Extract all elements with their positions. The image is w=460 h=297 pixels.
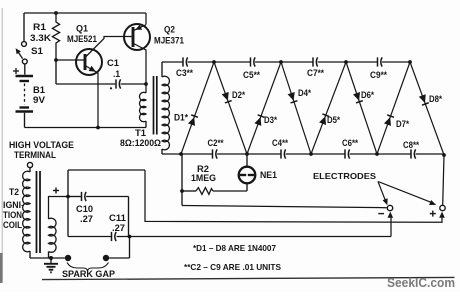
svg-text:C10: C10 — [76, 204, 93, 214]
svg-text:C2**: C2** — [208, 138, 224, 148]
svg-text:Q1: Q1 — [76, 24, 88, 34]
svg-text:.27: .27 — [112, 223, 125, 233]
svg-text:MJE521: MJE521 — [67, 34, 97, 44]
svg-text:C4**: C4** — [272, 138, 288, 148]
svg-text:.1: .1 — [113, 69, 120, 79]
svg-text:SPARK GAP: SPARK GAP — [62, 269, 115, 279]
svg-text:3.3K: 3.3K — [30, 33, 52, 43]
svg-text:NE1: NE1 — [260, 170, 277, 180]
svg-text:T1: T1 — [135, 128, 146, 138]
svg-text:HIGH VOLTAGE: HIGH VOLTAGE — [9, 140, 74, 150]
svg-text:S1: S1 — [31, 46, 43, 56]
svg-text:TERMINAL: TERMINAL — [14, 150, 56, 160]
svg-text:*D1 – D8 ARE 1N4007: *D1 – D8 ARE 1N4007 — [193, 243, 276, 253]
svg-text:B1: B1 — [33, 85, 45, 95]
svg-text:C1: C1 — [107, 58, 119, 68]
svg-text:R1: R1 — [33, 22, 46, 32]
svg-text:C6**: C6** — [342, 138, 358, 148]
svg-text:.27: .27 — [80, 214, 93, 224]
svg-text:D6*: D6* — [361, 90, 374, 100]
svg-text:D8*: D8* — [429, 94, 442, 104]
svg-text:C9**: C9** — [370, 70, 387, 80]
svg-text:SeekIC.com: SeekIC.com — [387, 275, 455, 290]
svg-text:D4*: D4* — [298, 88, 311, 98]
svg-text:C11: C11 — [109, 213, 126, 223]
svg-text:1MEG: 1MEG — [191, 173, 216, 183]
svg-text:IGNI-: IGNI- — [3, 200, 24, 210]
svg-text:C5**: C5** — [243, 70, 260, 80]
svg-text:D3*: D3* — [264, 115, 277, 125]
svg-text:T2: T2 — [9, 187, 19, 197]
svg-text:9V: 9V — [33, 95, 45, 105]
svg-text:TION: TION — [3, 210, 22, 220]
svg-text:C7**: C7** — [307, 68, 324, 78]
svg-text:D7*: D7* — [396, 119, 409, 129]
svg-text:MJE371: MJE371 — [154, 36, 184, 46]
svg-text:D1*: D1* — [174, 113, 188, 123]
svg-text:D2*: D2* — [232, 90, 245, 100]
svg-text:COIL: COIL — [3, 220, 22, 230]
svg-text:ELECTRODES: ELECTRODES — [313, 171, 376, 181]
svg-text:C8**: C8** — [403, 140, 419, 150]
svg-text:Q2: Q2 — [164, 25, 175, 35]
svg-text:D5*: D5* — [327, 115, 340, 125]
svg-text:**C2 – C9 ARE .01 UNITS: **C2 – C9 ARE .01 UNITS — [184, 262, 281, 272]
svg-text:C3**: C3** — [176, 68, 193, 78]
svg-text:8Ω:1200Ω: 8Ω:1200Ω — [120, 138, 161, 148]
